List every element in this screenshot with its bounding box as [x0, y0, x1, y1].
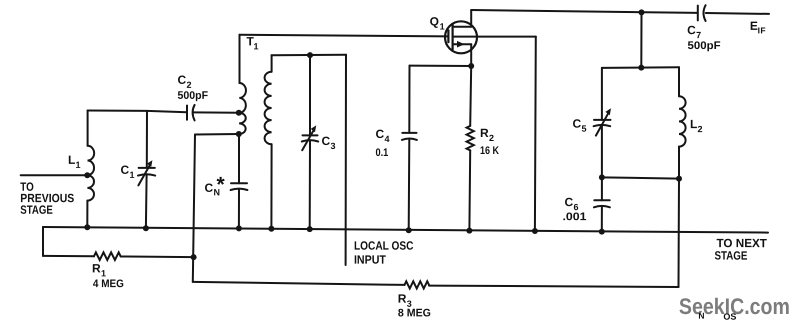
svg-text:1: 1 — [75, 160, 80, 170]
transformer T1 secondary — [265, 55, 272, 229]
capacitor CN (neutralizing) — [231, 134, 248, 228]
svg-text:1: 1 — [101, 268, 106, 278]
label 16K (R2) — [480, 145, 499, 157]
label .001 (C6) — [562, 211, 586, 223]
capacitor C4 0.1 — [402, 66, 417, 231]
node: tank top / C3 — [307, 52, 313, 58]
svg-text:C: C — [322, 134, 331, 148]
wire: gate lead T1 to Q1 — [240, 35, 449, 37]
label R3 — [398, 292, 412, 309]
label CN* — [204, 173, 225, 197]
wire: local oscillator input stub — [345, 55, 347, 265]
wire: C7 to EIF terminal — [706, 12, 769, 15]
node: substrate to bus — [532, 228, 538, 234]
node: drain line to IF tank — [639, 9, 645, 15]
label C7 — [687, 23, 701, 40]
label TO PREVIOUS STAGE — [20, 180, 74, 217]
wire: substrate to bus — [478, 37, 536, 231]
svg-text:3: 3 — [331, 141, 336, 151]
arrowhead C3 — [311, 125, 317, 132]
wire: bus drop to R1 — [42, 227, 44, 256]
node: tank bottom right — [676, 176, 682, 182]
label R2 — [480, 126, 494, 143]
transformer T1 primary — [239, 35, 246, 134]
svg-text:C: C — [204, 181, 213, 195]
capacitor C6 .001 — [594, 177, 610, 231]
label L1 — [68, 153, 81, 170]
node: C1 bottom — [143, 225, 149, 231]
label C5 — [573, 117, 587, 134]
node: C4 to bus — [406, 227, 412, 233]
svg-text:STAGE: STAGE — [714, 249, 747, 263]
label LOCAL OSC INPUT — [354, 239, 414, 267]
arrowhead C5 — [605, 108, 611, 115]
svg-text:INPUT: INPUT — [354, 253, 387, 267]
svg-text:1: 1 — [129, 170, 134, 180]
svg-text:4 MEG: 4 MEG — [93, 278, 124, 290]
svg-text:0.1: 0.1 — [376, 147, 389, 159]
capacitor C7 500pF — [698, 5, 706, 21]
label 0.1 (C4) — [376, 147, 389, 159]
transistor Q1 MOSFET — [445, 10, 478, 66]
svg-text:IF: IF — [758, 25, 767, 35]
node: T1 primary tap (C2) — [236, 110, 242, 116]
caption fragment N — [698, 311, 704, 321]
node: tank bottom left — [599, 174, 605, 180]
capacitor C5 (variable) — [594, 68, 611, 177]
label TO NEXT STAGE — [714, 236, 767, 262]
wire: IF tank feed — [640, 12, 642, 67]
wire: input from previous stage — [21, 174, 88, 176]
node: T1 primary bottom — [236, 131, 242, 137]
label T1 — [247, 34, 259, 51]
arrowhead C1 — [147, 160, 153, 167]
svg-text:L: L — [68, 153, 75, 167]
label 8MEG (R3) — [398, 307, 431, 319]
node: L1 input tap — [84, 172, 90, 178]
label C1 — [120, 163, 134, 180]
svg-text:C: C — [178, 73, 187, 87]
node: L1 bottom — [84, 224, 90, 230]
resistor R3 8MEG — [193, 281, 679, 288]
svg-text:2: 2 — [698, 124, 703, 134]
capacitor C1 (variable) — [138, 111, 155, 228]
capacitor C2 500pF — [187, 105, 195, 121]
node: R2 to bus — [466, 228, 472, 234]
watermark SeekIC.com — [679, 294, 790, 319]
label C6 — [564, 195, 578, 212]
svg-text:.001: .001 — [562, 211, 586, 223]
node: R1 to bias line — [191, 254, 197, 260]
label Q1 — [430, 15, 445, 32]
capacitor C3 (variable) — [302, 55, 318, 229]
svg-text:C: C — [120, 163, 129, 177]
svg-text:N: N — [698, 311, 704, 321]
label R1 — [92, 261, 106, 278]
caption fragment OS — [723, 312, 736, 322]
wire: L2 down to R3 — [678, 179, 681, 287]
label L2 — [690, 117, 703, 134]
svg-text:Q: Q — [430, 15, 439, 29]
svg-text:R: R — [480, 126, 489, 140]
svg-text:LOCAL OSC: LOCAL OSC — [354, 239, 414, 253]
svg-text:C: C — [687, 23, 696, 37]
wire: Q1 drain to output — [471, 10, 697, 13]
svg-text:5: 5 — [582, 124, 587, 134]
label 500pF (C7) — [688, 40, 721, 52]
wire: IF tank bottom rail — [602, 177, 679, 178]
inductor L2 — [679, 67, 686, 178]
label 500pF (C2) — [178, 90, 209, 102]
wire: oscillator tank top rail — [272, 54, 346, 57]
node: C6 to bus — [599, 229, 605, 235]
node: tank feed — [638, 65, 644, 71]
label C3 — [322, 134, 336, 151]
wire: top node L1/C1/C2 — [88, 111, 239, 113]
arrowhead Q1 source — [457, 41, 465, 48]
svg-text:C: C — [564, 195, 573, 209]
svg-text:16 K: 16 K — [480, 145, 499, 157]
label C4 — [376, 127, 390, 144]
svg-text:L: L — [690, 117, 697, 131]
svg-text:2: 2 — [187, 80, 192, 90]
wire: common bus — [43, 227, 768, 233]
svg-text:1: 1 — [440, 22, 445, 32]
svg-text:*: * — [216, 173, 225, 196]
svg-text:500pF: 500pF — [178, 90, 209, 102]
svg-text:4: 4 — [385, 134, 390, 144]
svg-text:R: R — [398, 292, 407, 306]
svg-text:C: C — [376, 127, 385, 141]
svg-text:8 MEG: 8 MEG — [398, 307, 431, 319]
wire: Q1 source node — [410, 65, 472, 67]
svg-text:C: C — [573, 117, 582, 131]
svg-text:7: 7 — [696, 30, 701, 40]
label 4MEG (R1) — [93, 278, 124, 290]
svg-text:R: R — [92, 261, 101, 275]
svg-text:OS: OS — [723, 312, 736, 322]
resistor R2 16K — [467, 66, 474, 231]
wire: IF tank top rail — [602, 66, 679, 69]
svg-text:500pF: 500pF — [688, 40, 721, 52]
node: source junction — [468, 63, 474, 69]
svg-text:2: 2 — [489, 133, 494, 143]
node: C3 to bus — [307, 226, 313, 232]
svg-text:1: 1 — [254, 41, 259, 51]
inductor L1 — [87, 111, 94, 228]
node: CN to bus — [236, 225, 242, 231]
wire: T1 tap2 to bias node — [193, 134, 239, 282]
node: secondary to bus — [268, 226, 274, 232]
label EIF — [750, 19, 766, 36]
svg-text:STAGE: STAGE — [20, 203, 53, 217]
resistor R1 4MEG — [43, 252, 194, 260]
label C2 — [178, 73, 192, 90]
